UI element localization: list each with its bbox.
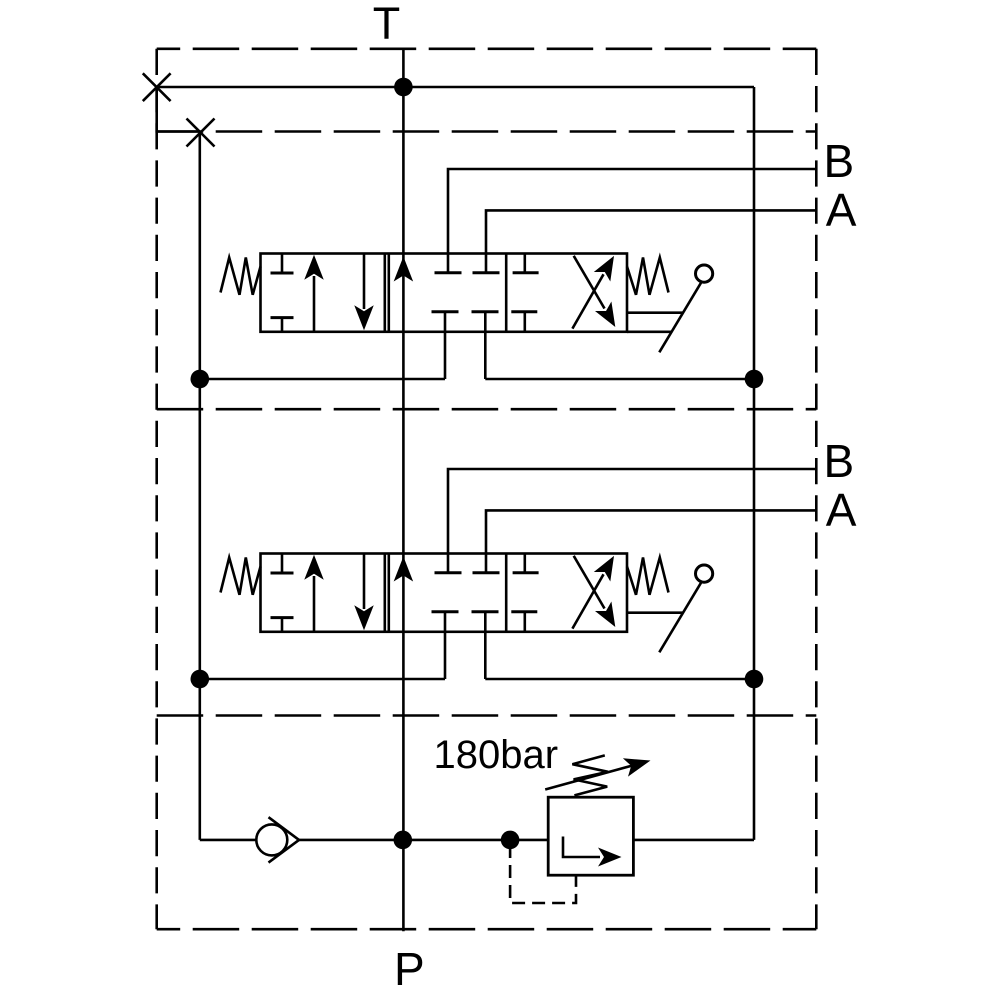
valve V1 position divider (double line)	[383, 254, 386, 332]
valve V1 pos2 open-center up arrowhead	[394, 257, 414, 282]
junction node right V1	[745, 370, 764, 389]
valve V1 lever knob	[696, 265, 713, 282]
wire: valve V1 bottom stub left	[444, 312, 447, 379]
junction node on P line center	[394, 831, 413, 850]
valve V2 left return spring	[221, 558, 261, 595]
svg-text:B: B	[824, 135, 855, 187]
valve V2 pos2 blocked bar top-left	[435, 571, 462, 574]
valve V1 lever link upper	[627, 311, 683, 314]
valve V1 pos3 crossed arrow (up-right)	[572, 274, 603, 328]
valve V2 pos1 blocked port top	[281, 554, 284, 574]
valve V1 pos3 crossed arrow (down-right)	[574, 256, 605, 309]
valve V1 lever link lower	[627, 330, 672, 333]
check valve CV1	[256, 824, 287, 855]
svg-text:P: P	[394, 943, 425, 995]
wire: valve V2 bottom stub right	[484, 612, 487, 679]
valve V2 pos1 up arrow	[313, 576, 316, 632]
svg-text:180bar: 180bar	[434, 733, 559, 777]
enclosure dashed border right	[815, 49, 818, 929]
relief valve RV1 pilot line (dashed)	[510, 845, 576, 903]
valve V1 lever arm	[659, 282, 701, 352]
wire: valve V2 port B to right edge	[448, 469, 816, 573]
wire: bottom pressure line middle	[299, 839, 548, 842]
valve V2 pos1 down arrow	[363, 554, 366, 610]
section divider dashed line 3	[157, 714, 817, 717]
valve V2 lever arm	[659, 582, 701, 652]
valve V1 pos2 blocked bar bottom-left	[432, 310, 459, 313]
enclosure dashed border top	[157, 47, 817, 50]
relief valve RV1 adjustable spring	[572, 755, 608, 795]
wire: lower gallery left segment V2	[200, 678, 445, 681]
wire: T line vertical (center P-T gallery)	[402, 49, 405, 932]
relief valve RV1 body	[548, 797, 633, 875]
svg-text:A: A	[826, 184, 857, 236]
junction node pilot tap	[501, 831, 520, 850]
junction node on tank line	[394, 78, 413, 97]
valve V2 pos2 open-center up arrowhead	[394, 557, 414, 582]
valve V1 pos2 blocked bar top-right	[473, 271, 500, 274]
relief valve RV1 adjustment arrow	[545, 765, 636, 790]
wire: lower gallery right segment V2	[485, 678, 754, 681]
enclosure dashed border bottom	[157, 928, 817, 931]
junction node left V2	[191, 670, 210, 689]
valve V1 left return spring	[221, 258, 261, 295]
plugged port X1	[143, 73, 171, 101]
valve V2 pos3 crossed arrow (up-right)	[572, 574, 603, 628]
valve V2 right return spring	[627, 558, 669, 595]
valve V2 pos3 blocked port bottom	[511, 610, 537, 613]
wire: valve V2 port A to right edge	[486, 510, 816, 572]
valve V1 pos1 up arrow	[313, 276, 316, 332]
enclosure dashed border left	[155, 49, 158, 929]
valve V2 position divider	[505, 554, 508, 632]
wire: lower gallery right segment V1	[485, 378, 754, 381]
valve V2 pos2 blocked bar bottom-right	[472, 610, 499, 613]
valve V2 lever knob	[696, 565, 713, 582]
relief valve RV1 internal flow arrow	[563, 837, 600, 858]
valve V1 pos2 blocked bar bottom-right	[472, 310, 499, 313]
valve V1 pos2 blocked bar top-left	[435, 271, 462, 274]
wire: valve V2 bottom stub left	[444, 612, 447, 679]
svg-text:T: T	[373, 0, 401, 49]
section divider dashed line 2	[157, 408, 817, 411]
valve V1 pos3 blocked port bottom	[511, 310, 537, 313]
wire: bottom pressure line right	[633, 839, 754, 842]
svg-text:B: B	[824, 435, 855, 487]
valve V2 pos3 blocked port top	[523, 554, 526, 573]
valve V1 pos1 down arrow	[363, 254, 366, 310]
valve V2 pos3 crossed arrow (down-right)	[574, 556, 605, 609]
valve V1 right return spring	[627, 258, 669, 295]
valve V1 pos3 blocked port top	[523, 254, 526, 273]
wire: valve V1 port B to right edge	[448, 169, 816, 273]
section divider dashed line 1	[157, 130, 817, 133]
wire: left gallery vertical	[199, 132, 202, 840]
valve V2 lever link upper	[627, 611, 683, 614]
valve V2 pos2 blocked bar top-right	[473, 571, 500, 574]
wire: X1 to X2	[157, 87, 200, 132]
valve V2 position divider (double line)	[383, 554, 386, 632]
plugged port X2	[187, 119, 215, 147]
wire: valve V1 port A to right edge	[486, 210, 816, 272]
wire: top tank line horizontal	[157, 86, 754, 89]
valve V1 pos1 blocked port bottom	[271, 316, 294, 319]
directional valve V1 body	[261, 254, 628, 332]
junction node left V1	[191, 370, 210, 389]
wire: right gallery vertical	[753, 87, 756, 840]
valve V1 pos1 blocked port top	[281, 254, 284, 274]
wire: valve V1 bottom stub right	[484, 312, 487, 379]
valve V2 pos2 blocked bar bottom-left	[432, 610, 459, 613]
valve V2 pos1 blocked port bottom	[271, 616, 294, 619]
directional valve V2 body	[261, 554, 628, 632]
wire: lower gallery left segment V1	[200, 378, 445, 381]
valve V1 position divider	[505, 254, 508, 332]
junction node right V2	[745, 670, 764, 689]
wire: bottom pressure line left	[200, 839, 256, 842]
svg-text:A: A	[826, 484, 857, 536]
